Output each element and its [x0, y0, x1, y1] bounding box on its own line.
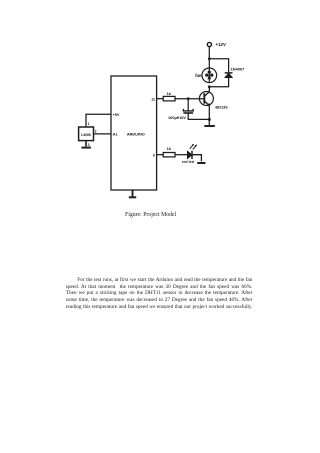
wire: junction right to diode cathode branch [209, 59, 228, 73]
wire: LM35 pin1 up and right to Arduino +5V [86, 114, 111, 127]
wire: R1 to base node [175, 98, 204, 100]
svg-text:1k: 1k [167, 91, 172, 96]
R2 value label 1k [167, 146, 172, 151]
resistor R2 1k (pin 6) [157, 153, 175, 157]
wire: R2 to LED anode [175, 154, 187, 156]
+12V label [216, 42, 226, 47]
svg-text:A1: A1 [113, 133, 118, 137]
C1 value label 100µf/16V [168, 115, 186, 120]
svg-text:2: 2 [95, 129, 97, 133]
junction: base / capacitor node [187, 97, 190, 100]
fan label [195, 73, 202, 78]
wire: LM35 pin2 right to Arduino A1 [94, 133, 112, 135]
pin label 6 [153, 153, 155, 157]
figure caption [125, 212, 176, 218]
svg-text:red led: red led [182, 160, 195, 164]
pin number 1 [88, 122, 90, 126]
wire: +12V terminal down to fan top [208, 46, 210, 68]
wire: diode anode down and left to fan bottom [209, 78, 228, 87]
pin label +5V [113, 113, 120, 117]
ARDUINO label [127, 132, 145, 136]
ground: LED ground bar [197, 162, 205, 164]
junction: emitter / capacitor return [208, 118, 211, 121]
LM35 label [81, 133, 90, 137]
pin label 11 [151, 97, 155, 101]
wire: fan bottom junction down to transistor collector [208, 87, 210, 92]
LED D2 red led [187, 144, 197, 159]
svg-text:ARDUINO: ARDUINO [127, 132, 145, 136]
wire: base node down to capacitor [187, 99, 189, 111]
svg-text:BD139: BD139 [215, 104, 228, 109]
+12V supply terminal [207, 42, 211, 46]
diode 1N4007 [225, 73, 233, 78]
svg-text:100µf/16V: 100µf/16V [168, 115, 186, 120]
ground: emitter ground bar [204, 125, 214, 127]
svg-text:11: 11 [151, 97, 155, 101]
svg-text:fan: fan [195, 73, 202, 78]
capacitor C1 100uf/16V [183, 109, 193, 113]
svg-text:3: 3 [88, 143, 90, 147]
pin number 2 [95, 129, 97, 133]
BD139 label [215, 104, 228, 109]
red led label [182, 160, 195, 164]
svg-text:+5V: +5V [113, 113, 120, 117]
R1 value label 1k [167, 91, 172, 96]
svg-text:+12V: +12V [216, 42, 226, 47]
body paragraph [66, 277, 253, 310]
fan M1 [202, 68, 217, 83]
wire: capacitor bottom to emitter ground line [188, 113, 209, 119]
wire: LED cathode right and down to ground [192, 155, 201, 162]
sensor LM35 [79, 127, 94, 141]
resistor R1 1k (pin 11) [157, 96, 175, 101]
junction: supply node to diode branch [208, 57, 211, 60]
wire: LM35 pin3 down to ground [85, 141, 87, 147]
wire: Arduino bottom to ground stub [132, 190, 134, 196]
svg-text:1N4007: 1N4007 [231, 66, 245, 71]
svg-text:1k: 1k [167, 146, 172, 151]
pin label A1 [113, 133, 118, 137]
ground: LM35 ground bar [81, 147, 91, 149]
svg-text:1: 1 [88, 122, 90, 126]
ground: Arduino ground bar [129, 196, 136, 198]
wire: emitter down to ground [208, 106, 210, 126]
junction: fan bottom / diode anode / collector node [208, 85, 211, 88]
1N4007 value label [231, 66, 245, 71]
Arduino U1 [111, 76, 157, 190]
transistor Q1 BD139 [199, 92, 213, 106]
pin number 3 [88, 143, 90, 147]
svg-text:LM35: LM35 [81, 133, 90, 137]
svg-text:6: 6 [153, 153, 155, 157]
